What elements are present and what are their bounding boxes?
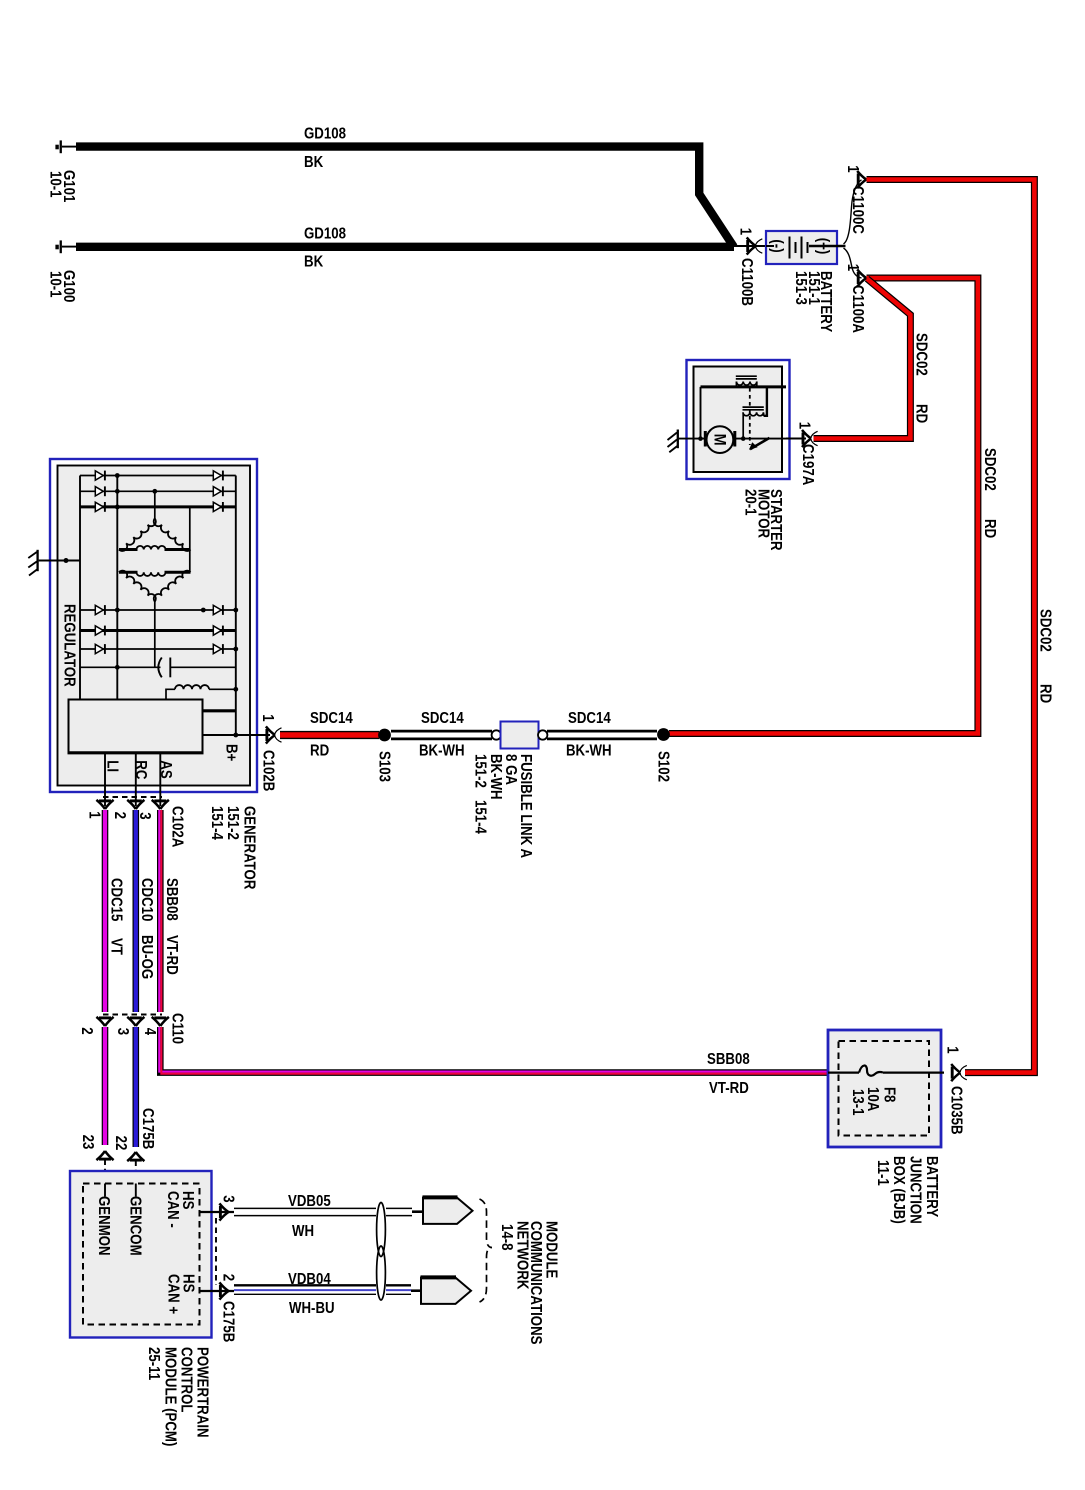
svg-text:BK-WH: BK-WH xyxy=(487,754,504,800)
svg-text:S102: S102 xyxy=(655,751,672,782)
diode left row 3 xyxy=(95,502,103,511)
diode right row 3 xyxy=(213,502,221,511)
svg-text:11-1: 11-1 xyxy=(874,1160,891,1186)
svg-text:151-4: 151-4 xyxy=(208,806,225,840)
field coil xyxy=(166,685,236,699)
connector C110 arrows xyxy=(96,1017,113,1026)
regulator output thick stub xyxy=(203,709,236,712)
svg-text:CDC15: CDC15 xyxy=(108,878,125,922)
regulator box xyxy=(69,700,203,753)
starter motor outer box xyxy=(687,360,790,479)
svg-text:BATTERY: BATTERY xyxy=(923,1156,940,1218)
svg-text:BOX (BJB): BOX (BJB) xyxy=(890,1156,907,1224)
BJB dashed internal rect xyxy=(839,1041,930,1136)
svg-text:MODULE (PCM): MODULE (PCM) xyxy=(162,1347,179,1446)
fusible link right terminal xyxy=(538,730,547,739)
solenoid pull-in winding xyxy=(736,376,757,387)
connector arrow pin 2 xyxy=(219,1282,228,1299)
network terminal upper xyxy=(423,1197,473,1224)
pin AS line xyxy=(159,753,161,806)
connector C1100C arrow xyxy=(857,171,866,188)
wire SDC14 BK-WH (right segment, double line) xyxy=(547,731,657,739)
wire SDC14 BK-WH (left segment, double line) xyxy=(391,731,492,739)
pin RC line xyxy=(135,753,137,806)
svg-text:1: 1 xyxy=(796,422,813,430)
dashed leads into PCM xyxy=(105,1160,136,1184)
svg-text:151-4: 151-4 xyxy=(472,800,489,834)
connector arrow pin 3 xyxy=(219,1203,228,1220)
leader curve battery(+) to C1100C xyxy=(844,180,862,244)
svg-text:CONTROL: CONTROL xyxy=(178,1347,195,1413)
svg-text:C1035B: C1035B xyxy=(948,1086,965,1135)
diode right row 1 xyxy=(213,471,221,480)
stator delta winding upper xyxy=(119,519,191,552)
label HS CAN + xyxy=(165,1274,197,1314)
svg-text:C175B: C175B xyxy=(139,1108,156,1149)
PCM box xyxy=(70,1171,212,1338)
svg-text:S103: S103 xyxy=(376,751,393,782)
svg-text:M: M xyxy=(711,434,730,446)
svg-text:CAN -: CAN - xyxy=(164,1191,181,1228)
connector C102A arrows xyxy=(96,800,113,809)
svg-text:WH-BU: WH-BU xyxy=(289,1300,335,1317)
svg-text:2: 2 xyxy=(111,812,128,820)
switch blade arrowhead xyxy=(749,442,758,450)
svg-text:VT-RD: VT-RD xyxy=(163,935,180,975)
svg-text:10-1: 10-1 xyxy=(47,171,64,198)
svg-text:MODULE: MODULE xyxy=(543,1221,560,1278)
battery (+) terminal stub xyxy=(809,245,846,248)
label G100 10-1 xyxy=(47,270,78,303)
svg-text:151-3: 151-3 xyxy=(792,271,809,305)
svg-text:SDC02: SDC02 xyxy=(913,333,930,376)
junction at motor line xyxy=(698,436,703,441)
rectifier row 1 xyxy=(80,475,236,477)
svg-text:RC: RC xyxy=(132,760,149,779)
connector C1100B arrow xyxy=(747,237,763,254)
svg-text:4: 4 xyxy=(141,1028,158,1036)
label F8 10A 13-1 xyxy=(849,1087,898,1116)
wire stub into battery C1100B xyxy=(734,245,766,247)
stator delta winding lower xyxy=(119,571,191,602)
left vertical to motor xyxy=(700,387,702,439)
svg-text:LI: LI xyxy=(104,760,121,772)
svg-text:JUNCTION: JUNCTION xyxy=(907,1156,924,1224)
label POWERTRAIN CONTROL MODULE (PCM) 25-11 xyxy=(145,1347,211,1446)
svg-text:23: 23 xyxy=(79,1135,96,1150)
svg-text:BK-WH: BK-WH xyxy=(419,743,465,760)
wire VDB04 WH-BU (twisted pair lower) xyxy=(234,1285,411,1294)
right bus vertical xyxy=(235,476,237,736)
svg-text:10-1: 10-1 xyxy=(47,271,64,298)
svg-text:SDC02: SDC02 xyxy=(981,448,998,491)
dashed bracket between pins xyxy=(215,1218,217,1285)
connector C102B arrow xyxy=(266,726,282,743)
network terminal lower xyxy=(421,1277,472,1304)
label SDC02 RD (right vertical) xyxy=(1037,609,1054,703)
motor M circle xyxy=(707,426,734,453)
fusible link A box xyxy=(501,722,539,749)
junction dot on ground line xyxy=(64,558,69,563)
rectifier row 4 xyxy=(80,609,236,611)
label STARTER MOTOR 20-1 xyxy=(742,489,785,551)
rectifier row 3 (thick) xyxy=(80,505,236,508)
diode right row 4 xyxy=(213,605,221,614)
delta apex vertical top xyxy=(154,491,156,518)
svg-text:GD108: GD108 xyxy=(304,226,346,243)
svg-text:SDC14: SDC14 xyxy=(310,710,353,727)
svg-text:C102A: C102A xyxy=(169,806,186,847)
switch blade xyxy=(750,438,770,449)
svg-text:13-1: 13-1 xyxy=(849,1089,866,1116)
svg-text:SBB08: SBB08 xyxy=(707,1051,750,1068)
svg-text:C1100B: C1100B xyxy=(738,258,755,306)
delta apex vertical bottom xyxy=(154,602,156,668)
junction coil to motor line xyxy=(741,436,746,441)
battery box xyxy=(766,231,837,264)
capacitor row line xyxy=(80,666,236,668)
svg-text:2: 2 xyxy=(220,1274,237,1282)
label G101 10-1 xyxy=(47,170,78,203)
battery cell plates xyxy=(790,237,808,259)
ground G100 xyxy=(55,240,77,253)
diode right row 5 xyxy=(213,626,221,635)
wire VDB05 WH (twisted pair upper) xyxy=(234,1208,412,1215)
label CDC10 BU-OG xyxy=(138,878,155,979)
svg-text:20-1: 20-1 xyxy=(742,489,759,516)
wire CDC10 BU-OG (upper segment) xyxy=(133,810,140,1012)
pin stubs inside PCM xyxy=(105,1184,136,1197)
wire SDC02 RD: branch to starter motor xyxy=(814,279,911,439)
brace xyxy=(480,1199,493,1302)
wire CDC10 BU-OG (lower segment) xyxy=(133,1027,140,1147)
svg-text:VT-RD: VT-RD xyxy=(709,1080,749,1097)
svg-text:22: 22 xyxy=(112,1136,129,1151)
svg-text:RD: RD xyxy=(913,404,930,423)
regulator bottom thick edge xyxy=(68,751,204,754)
wire SDC14 RD xyxy=(280,731,379,739)
label CDC15 VT xyxy=(108,878,125,955)
fusible link left terminal xyxy=(492,730,501,739)
ground G101 xyxy=(55,140,77,153)
chassis ground at starter xyxy=(668,430,678,453)
pin LI line xyxy=(104,753,106,806)
ground line into generator xyxy=(39,560,80,562)
label SBB08 VT-RD xyxy=(163,878,180,975)
svg-text:C1100C: C1100C xyxy=(849,186,866,234)
rectifier row 6 xyxy=(80,648,236,650)
svg-text:1: 1 xyxy=(259,714,276,722)
label HS CAN - xyxy=(164,1191,196,1228)
label GENERATOR 151-2 151-4 xyxy=(208,806,258,889)
motor feed line left xyxy=(678,438,704,440)
svg-text:1: 1 xyxy=(85,811,102,819)
connector C102A dashed bracket xyxy=(103,796,162,798)
wire stub to connector C197A xyxy=(786,438,806,440)
wire SDC02 RD: C1100C right and down to BJB xyxy=(867,180,1035,1073)
wire CDC15 VT (lower segment) xyxy=(102,1027,109,1145)
network connector stub lower xyxy=(411,1289,422,1292)
svg-text:F8: F8 xyxy=(881,1087,898,1103)
starter motor inner box xyxy=(694,367,783,473)
svg-text:1: 1 xyxy=(844,264,861,272)
connector C197A arrow xyxy=(802,430,818,447)
capacitor xyxy=(158,658,170,678)
svg-text:C1100A: C1100A xyxy=(849,285,866,333)
rectifier row 5 (thick) xyxy=(80,629,236,632)
stator bus vertical xyxy=(116,476,118,700)
connector C1035B arrow xyxy=(951,1064,967,1081)
svg-text:SBB08: SBB08 xyxy=(163,878,180,921)
svg-text:GENMON: GENMON xyxy=(95,1196,112,1256)
svg-text:C197A: C197A xyxy=(799,444,816,485)
wire SDC02 RD: C1100A right and down to S102 xyxy=(669,278,978,734)
motor brushes xyxy=(705,431,735,447)
leader curve battery(+) to C1100A xyxy=(844,248,862,278)
connector C175B arrows (into PCM) xyxy=(96,1151,113,1160)
svg-text:14-8: 14-8 xyxy=(498,1224,515,1251)
svg-text:VT: VT xyxy=(108,938,125,955)
rectifier row 2 xyxy=(80,490,236,492)
connector C1100A arrow xyxy=(857,269,866,286)
svg-text:RD: RD xyxy=(981,519,998,538)
right leg from supply line to hold-in winding xyxy=(764,387,767,416)
svg-text:1: 1 xyxy=(844,165,861,173)
chassis ground at generator xyxy=(28,550,37,576)
junction dots in generator xyxy=(115,473,120,478)
battery (-) terminal stub xyxy=(766,245,774,247)
svg-text:25-11: 25-11 xyxy=(145,1347,162,1380)
svg-text:B+: B+ xyxy=(223,744,240,761)
generator outer box xyxy=(50,459,257,792)
svg-text:AS: AS xyxy=(157,760,174,779)
label BATTERY 151-1 151-3 xyxy=(792,271,834,333)
diode right row 2 xyxy=(213,487,221,496)
splice S102 xyxy=(657,728,670,741)
svg-text:BK: BK xyxy=(304,154,324,171)
svg-text:3: 3 xyxy=(114,1028,131,1036)
svg-text:151-2: 151-2 xyxy=(472,754,489,788)
label SDC02 RD (starter branch) xyxy=(913,333,930,423)
svg-text:RD: RD xyxy=(310,743,329,760)
svg-text:(-): (-) xyxy=(769,239,786,252)
wire GD108 from G100 (thick black) xyxy=(76,243,734,251)
fuse F8 line and element xyxy=(828,1066,944,1076)
svg-text:GENCOM: GENCOM xyxy=(127,1196,144,1256)
plunger dashed link xyxy=(749,388,751,445)
diode left row 4 xyxy=(95,605,103,614)
motor line right with switch contact xyxy=(736,438,786,440)
BJB box xyxy=(828,1030,941,1147)
svg-text:GENERATOR: GENERATOR xyxy=(241,806,258,889)
solenoid supply line (thick) xyxy=(701,385,787,388)
svg-text:WH: WH xyxy=(292,1223,314,1240)
svg-text:C102B: C102B xyxy=(260,750,277,791)
svg-text:BK-WH: BK-WH xyxy=(566,743,612,760)
svg-text:SDC02: SDC02 xyxy=(1037,609,1054,652)
right winding vertical xyxy=(189,507,191,572)
PCM pin 2 lead xyxy=(200,1290,235,1292)
svg-text:1: 1 xyxy=(737,228,754,236)
wire SBB08 VT-RD (lower segment, turns right to BJB) xyxy=(159,1027,828,1074)
twisted pair symbol xyxy=(377,1203,386,1301)
svg-text:SDC14: SDC14 xyxy=(568,710,611,727)
label FUSIBLE LINK A 8 GA BK-WH 151-2 151-4 xyxy=(472,754,535,858)
svg-text:SDC14: SDC14 xyxy=(421,710,464,727)
svg-text:151-2: 151-2 xyxy=(224,806,241,840)
svg-text:1: 1 xyxy=(944,1046,961,1054)
svg-text:C175B: C175B xyxy=(220,1301,237,1342)
B+ output line xyxy=(203,734,271,736)
svg-text:CAN +: CAN + xyxy=(165,1274,182,1314)
PCM pin 3 lead xyxy=(200,1211,235,1213)
svg-text:BU-OG: BU-OG xyxy=(138,935,155,979)
svg-text:RD: RD xyxy=(1037,684,1054,703)
network connector stub upper xyxy=(412,1210,424,1213)
connector C110 dashed bracket xyxy=(103,1014,162,1016)
label MODULE COMMUNICATIONS NETWORK 14-8 xyxy=(498,1221,560,1345)
generator inner box xyxy=(58,466,251,786)
svg-text:VDB04: VDB04 xyxy=(288,1271,331,1288)
svg-text:2: 2 xyxy=(78,1027,95,1035)
svg-text:REGULATOR: REGULATOR xyxy=(61,604,78,687)
diode left row 1 xyxy=(95,471,103,480)
left bus vertical xyxy=(79,476,81,700)
PCM dashed internal rect xyxy=(83,1184,200,1325)
splice S103 xyxy=(378,729,391,742)
diode right row 6 xyxy=(213,644,221,653)
label BATTERY JUNCTION BOX (BJB) 11-1 xyxy=(874,1156,940,1224)
svg-text:VDB05: VDB05 xyxy=(288,1193,331,1210)
svg-text:POWERTRAIN: POWERTRAIN xyxy=(194,1347,211,1438)
svg-text:CDC10: CDC10 xyxy=(138,878,155,922)
diode left row 5 xyxy=(95,626,103,635)
label SDC02 RD (middle vertical) xyxy=(981,448,998,538)
svg-text:C110: C110 xyxy=(169,1013,186,1044)
wire SBB08 VT-RD (upper segment) xyxy=(159,810,161,1012)
svg-text:NETWORK: NETWORK xyxy=(514,1221,531,1290)
svg-text:GD108: GD108 xyxy=(304,126,346,143)
solenoid hold-in winding xyxy=(743,407,764,439)
wire GD108 from G101 (thick black) xyxy=(76,147,734,247)
diode left row 2 xyxy=(95,487,103,496)
wire CDC15 VT (upper segment) xyxy=(102,810,109,1012)
svg-text:3: 3 xyxy=(220,1195,237,1203)
diode left row 6 xyxy=(95,644,103,653)
svg-text:BK: BK xyxy=(304,254,324,271)
